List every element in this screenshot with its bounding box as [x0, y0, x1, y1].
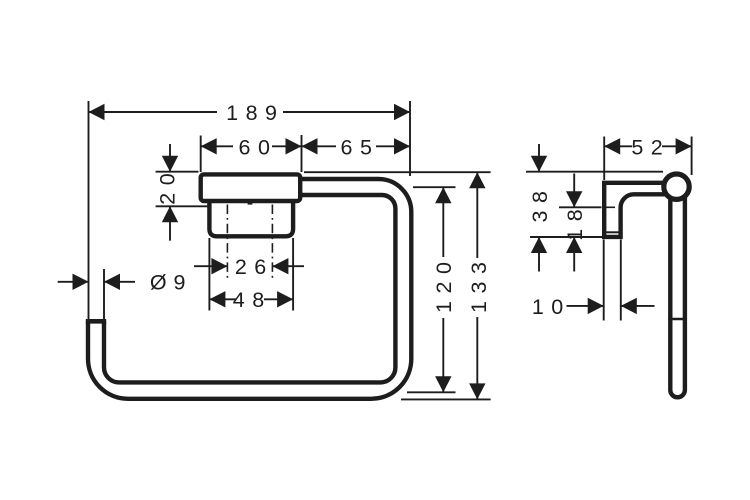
svg-text:52: 52 [631, 136, 670, 160]
svg-text:60: 60 [239, 136, 278, 160]
svg-text:38: 38 [528, 184, 552, 223]
svg-text:189: 189 [226, 101, 284, 125]
svg-text:133: 133 [467, 255, 491, 313]
svg-text:20: 20 [155, 166, 179, 205]
svg-text:48: 48 [233, 288, 272, 312]
svg-text:9: 9 [174, 271, 186, 295]
svg-text:120: 120 [432, 255, 456, 313]
svg-text:65: 65 [341, 136, 380, 160]
svg-text:26: 26 [235, 255, 274, 279]
svg-text:10: 10 [532, 295, 571, 319]
svg-text:18: 18 [563, 202, 587, 241]
svg-text:Ø: Ø [150, 271, 167, 295]
